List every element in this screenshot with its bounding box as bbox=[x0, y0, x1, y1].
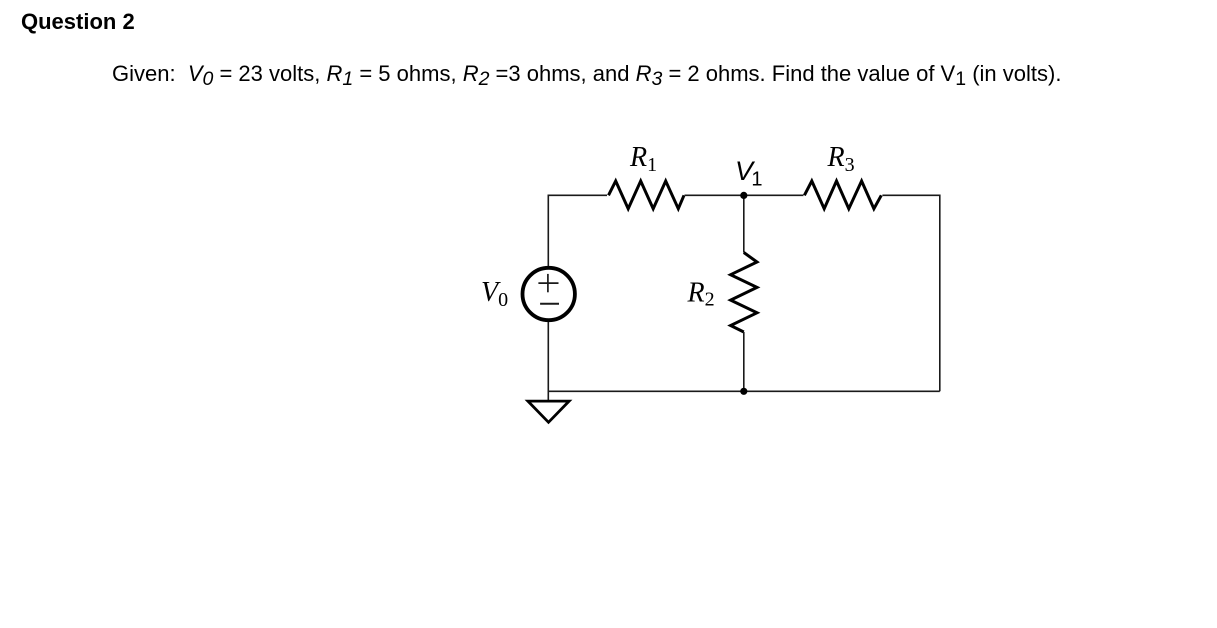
voltage source V0 bbox=[523, 268, 575, 320]
given statement text bbox=[112, 63, 1061, 85]
svg-text:V0: V0 bbox=[481, 277, 508, 311]
ground bbox=[528, 401, 569, 422]
resistor R3 bbox=[804, 181, 881, 209]
bottom junction dot bbox=[740, 388, 747, 395]
svg-text:1: 1 bbox=[751, 169, 762, 191]
wire V0 bottom to ground bbox=[547, 322, 549, 401]
wire R2 branch top bbox=[743, 195, 745, 252]
svg-text:R3: R3 bbox=[827, 142, 855, 176]
wire top-left horizontal (left corner to R1) bbox=[548, 195, 607, 266]
wire R2 bottom bbox=[743, 332, 745, 391]
heading Question 2 bbox=[21, 11, 135, 33]
wire bottom horizontal bbox=[548, 390, 940, 392]
resistor R2 bbox=[731, 253, 757, 333]
wire node V1 to R3 bbox=[744, 194, 804, 196]
svg-text:R2: R2 bbox=[687, 277, 715, 310]
svg-text:R1: R1 bbox=[629, 142, 657, 176]
wire R3 to right corner bbox=[882, 195, 939, 391]
V0 minus sign bbox=[540, 303, 559, 305]
V0 plus sign bbox=[538, 282, 558, 284]
node V1 junction dot bbox=[740, 192, 747, 199]
wire R1 to node V1 bbox=[685, 194, 744, 196]
resistor R1 bbox=[609, 181, 685, 209]
